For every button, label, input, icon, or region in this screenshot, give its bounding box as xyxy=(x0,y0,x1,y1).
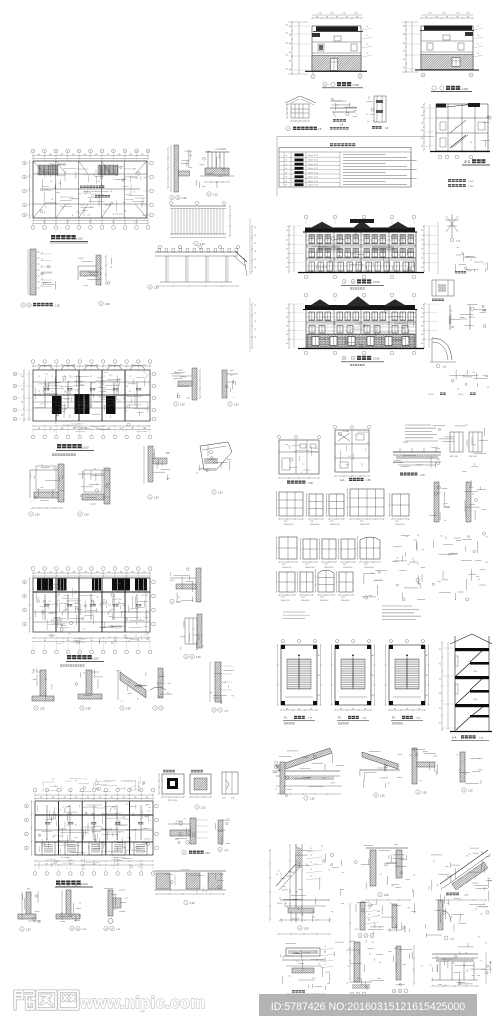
svg-text:1:20: 1:20 xyxy=(380,796,385,798)
parapet detail (right of 3F plan) 2 xyxy=(222,370,227,398)
svg-text:-: - xyxy=(348,357,349,360)
svg-text:15: 15 xyxy=(38,376,40,378)
svg-text:28: 28 xyxy=(254,227,256,229)
svg-text:1800x1500: 1800x1500 xyxy=(330,524,339,526)
svg-text:-: - xyxy=(437,87,438,91)
svg-text:15: 15 xyxy=(129,391,131,393)
bottom-left wall base detail 2 label xyxy=(70,926,74,930)
svg-text:1500x1500: 1500x1500 xyxy=(282,567,291,569)
wall detail 4-14 (right of roof plan) xyxy=(174,145,179,192)
svg-text:900x1500: 900x1500 xyxy=(320,600,328,602)
wall strip leader texts xyxy=(40,253,52,255)
mid small details pair xyxy=(360,902,365,930)
column footing detail a (square) xyxy=(162,774,184,794)
svg-text:25: 25 xyxy=(368,914,370,916)
svg-text:25mm 1:2.5: 25mm 1:2.5 xyxy=(308,185,318,187)
decor detail 7 label xyxy=(286,126,290,130)
detail tree symbol 1:20 xyxy=(451,214,453,238)
second floor plan interior xyxy=(46,619,48,630)
second floor plan left right bubbles xyxy=(23,580,27,584)
svg-text:20: 20 xyxy=(41,278,43,280)
decorative gable detail 7 xyxy=(285,96,300,103)
elevation 6-5 title xyxy=(432,86,436,90)
svg-text:1:100: 1:100 xyxy=(82,446,89,450)
balcony corner detail 5 (left-bottom) xyxy=(96,255,101,285)
svg-text:1:20: 1:20 xyxy=(55,305,60,308)
svg-text:28: 28 xyxy=(254,259,256,261)
bottom mid vertical strip detail xyxy=(354,942,360,982)
svg-text:12: 12 xyxy=(477,53,479,55)
svg-text:3: 3 xyxy=(56,151,57,153)
svg-text:A-A: A-A xyxy=(340,478,345,482)
right mid vertical detail xyxy=(438,900,443,930)
facade 11-1 bottom axis bubbles xyxy=(304,351,308,355)
facade 11-1 ground line xyxy=(298,348,424,350)
elevation 6-5 right leader notes xyxy=(473,28,483,30)
roof plan extra marks xyxy=(84,190,97,192)
svg-text:-: - xyxy=(348,281,349,284)
svg-text:28: 28 xyxy=(254,313,256,315)
svg-text:1:20: 1:20 xyxy=(190,903,195,905)
bottom right field leader texts a xyxy=(306,850,322,852)
long footing detail bottom xyxy=(154,870,226,872)
svg-text:28: 28 xyxy=(254,337,256,339)
svg-text:-: - xyxy=(328,83,329,87)
roof plan axis bubbles top xyxy=(31,149,35,153)
wall corner detail mid label xyxy=(182,850,186,854)
bathroom enlarged plan 1 xyxy=(279,440,319,474)
window schedule row 3 xyxy=(279,572,295,592)
materials table black sample cells xyxy=(295,154,304,157)
svg-text:1:100: 1:100 xyxy=(468,186,474,188)
section 1-1 axis bubbles xyxy=(438,155,442,159)
svg-text:1:20: 1:20 xyxy=(84,515,89,517)
svg-text:1.50: 1.50 xyxy=(456,13,460,15)
svg-text:12: 12 xyxy=(366,53,368,55)
vertical detail right edge of 1F details xyxy=(280,762,285,794)
svg-text:15: 15 xyxy=(103,391,105,393)
svg-text:1:30: 1:30 xyxy=(105,304,110,306)
facade 1-11 title xyxy=(342,280,346,284)
svg-text:15: 15 xyxy=(77,376,79,378)
column footing detail b (hatched square) xyxy=(190,774,211,794)
gable-chimney detail label xyxy=(298,926,302,930)
parapet posts label xyxy=(378,892,382,896)
svg-text:1:30: 1:30 xyxy=(154,288,159,290)
elevation 6-5 axis bubbles xyxy=(421,73,425,77)
facade 1-11 balcony rails xyxy=(318,246,340,248)
bottom mid second strip xyxy=(396,946,401,980)
svg-text:15: 15 xyxy=(90,376,92,378)
svg-text:1:100: 1:100 xyxy=(81,882,88,886)
svg-text:1: 1 xyxy=(360,936,361,938)
wall strip label xyxy=(21,303,25,307)
svg-text:1:100: 1:100 xyxy=(76,237,83,241)
svg-text:4: 4 xyxy=(67,151,68,153)
svg-text:28: 28 xyxy=(254,243,256,245)
bathroom plan 1 label xyxy=(287,481,290,484)
materials table xyxy=(279,148,411,188)
svg-text:8: 8 xyxy=(113,151,114,153)
elevation 6-5 ground line xyxy=(415,69,479,71)
right details stack c - fireplace xyxy=(432,280,454,296)
svg-text:11: 11 xyxy=(147,151,149,153)
facade 11-1 roof band xyxy=(305,305,415,310)
svg-text:1:100: 1:100 xyxy=(462,87,469,91)
svg-text:M1 1:30: M1 1:30 xyxy=(469,456,477,458)
svg-text:20: 20 xyxy=(41,265,43,267)
notes above stair plan 1 xyxy=(283,611,305,613)
gable-chimney tall detail bottom left of field xyxy=(295,844,297,922)
facade 11-1 upper windows xyxy=(309,312,315,320)
svg-text:1.50: 1.50 xyxy=(318,13,322,15)
svg-text:1:20: 1:20 xyxy=(304,929,309,931)
detail right of 2F plan 4 xyxy=(196,568,201,602)
roof plan inner annotation xyxy=(84,191,87,194)
window sill detail bottom xyxy=(286,948,320,956)
railing detail 5 label xyxy=(194,241,198,245)
balcony corner detail 5 label xyxy=(99,301,103,305)
eave detail row item C xyxy=(412,748,417,784)
facade 1-11 ground line xyxy=(298,272,424,274)
roof plan gutter hatch combs xyxy=(38,165,58,175)
svg-text:2: 2 xyxy=(394,991,395,993)
svg-text:5: 5 xyxy=(79,151,80,153)
svg-text:25mm 1:2.5: 25mm 1:2.5 xyxy=(308,172,318,174)
roof plan body outline xyxy=(33,161,147,218)
elevation 5-6 right leader notes xyxy=(362,28,372,30)
second floor plan bottom dims xyxy=(33,637,150,639)
svg-text:14: 14 xyxy=(177,198,179,200)
svg-text:1:20: 1:20 xyxy=(196,657,201,659)
svg-text:5: 5 xyxy=(313,77,314,79)
svg-text:6: 6 xyxy=(90,151,91,153)
right eave detail label xyxy=(446,893,449,896)
svg-text:15: 15 xyxy=(129,376,131,378)
detail right of 2F plan window jamb xyxy=(197,614,202,648)
roof plan ridge and hip lines xyxy=(33,173,147,175)
stair section flights xyxy=(456,663,470,676)
facade 1-11 windows floor2/3 xyxy=(309,235,315,244)
svg-text:1:20: 1:20 xyxy=(126,709,131,711)
decor mid detail xyxy=(330,100,342,102)
wall section detail right of row1 b xyxy=(466,482,471,522)
third floor plan top axis bubbles and dims xyxy=(31,360,35,364)
svg-text:1-1: 1-1 xyxy=(464,159,471,164)
svg-text:1800x1500: 1800x1500 xyxy=(360,524,369,526)
parapet detail (right of 3F plan) 1 xyxy=(192,368,197,400)
second floor plan heavy walls xyxy=(33,591,150,593)
facade 11-1 title xyxy=(342,356,346,360)
roof plan axis bubbles bottom xyxy=(31,226,35,230)
facade 11-1 right dimension column xyxy=(423,304,425,348)
roof plan outer dimension chains bottom xyxy=(33,220,148,222)
svg-text:A-A: A-A xyxy=(452,736,457,740)
facade 11-1 ground floor openings xyxy=(312,337,319,346)
window schedule row 2 xyxy=(279,537,297,559)
mid small details labels xyxy=(358,934,362,938)
corner wall detail B below 3F plan xyxy=(104,468,110,504)
svg-text:25mm 1:2.5: 25mm 1:2.5 xyxy=(308,181,318,183)
facade 11-1 gables xyxy=(309,300,331,307)
elevation 6-5 window in wall xyxy=(452,58,460,67)
third floor plan interior partitions xyxy=(44,382,46,408)
svg-text:1:50: 1:50 xyxy=(308,482,313,485)
second floor plan body xyxy=(33,578,150,632)
svg-text:14: 14 xyxy=(77,929,79,931)
wall detail 4-14 label xyxy=(170,195,174,199)
decor right detail label xyxy=(372,126,375,129)
svg-text:16-11: 16-11 xyxy=(458,394,464,396)
svg-text:1500x1500: 1500x1500 xyxy=(305,567,314,569)
elevation 6-5 building body xyxy=(421,26,473,70)
roof plan title xyxy=(51,235,55,239)
section 1-1 building outline xyxy=(436,104,488,151)
svg-text:12: 12 xyxy=(366,26,368,28)
stair plan 1F xyxy=(281,639,284,642)
svg-text:25: 25 xyxy=(324,964,326,966)
svg-text:28: 28 xyxy=(254,235,256,237)
far right edge details xyxy=(481,968,489,970)
bottom right field extra scatter 3 xyxy=(426,934,442,936)
svg-text:20: 20 xyxy=(41,285,43,287)
svg-text:1:20: 1:20 xyxy=(176,602,181,604)
frame line above table xyxy=(277,136,434,138)
facade 11-1 extra texture xyxy=(349,313,351,316)
facade 1-11 bottom axis bubbles xyxy=(304,275,308,279)
svg-text:15: 15 xyxy=(51,376,53,378)
first floor plan interior partitions xyxy=(46,805,48,840)
svg-text:1.50: 1.50 xyxy=(466,13,470,15)
svg-text:12: 12 xyxy=(366,35,368,37)
second floor plan top axis bubbles and dims xyxy=(33,572,150,574)
svg-text:12: 12 xyxy=(477,26,479,28)
svg-text:15: 15 xyxy=(103,376,105,378)
third floor plan title xyxy=(57,444,61,448)
section 1-1 roof slabs xyxy=(436,104,446,108)
svg-text:1.50: 1.50 xyxy=(428,13,432,15)
third floor plan bay windows top xyxy=(38,366,53,371)
svg-text:900x1500: 900x1500 xyxy=(281,600,289,602)
small window section pair xyxy=(450,432,463,452)
right details stack d xyxy=(482,305,484,307)
svg-text:25: 25 xyxy=(310,862,312,864)
svg-text:2: 2 xyxy=(366,936,367,938)
wall base detail row item 4 - corner xyxy=(158,668,163,698)
svg-text:10: 10 xyxy=(136,151,138,153)
svg-text:20: 20 xyxy=(41,259,43,261)
stair section body xyxy=(454,636,456,732)
svg-text:1: 1 xyxy=(33,151,34,153)
svg-text:25: 25 xyxy=(310,876,312,878)
elevation 6-5 hatched lower wall xyxy=(421,55,473,70)
right eave large detail xyxy=(440,850,488,884)
facade 11-1 top axis bubbles xyxy=(304,293,308,297)
facade 1-11 extra texture xyxy=(316,265,318,269)
svg-text:1:100: 1:100 xyxy=(373,357,380,361)
svg-text:4.500: 4.500 xyxy=(403,442,409,444)
bottom-left wall base detail 1 xyxy=(26,892,31,918)
svg-text:1.50: 1.50 xyxy=(354,13,358,15)
svg-text:1:30: 1:30 xyxy=(420,475,425,477)
elevation 5-6 hatched lower wall xyxy=(312,56,361,72)
svg-text:2: 2 xyxy=(44,151,45,153)
second floor plan black balcony blocks xyxy=(37,579,53,591)
wall section detail right of row1 a xyxy=(434,482,439,522)
second floor plan interior partitions xyxy=(44,594,46,620)
bottom-left wall base detail 2 xyxy=(66,890,71,918)
svg-text:25mm 1:2.5: 25mm 1:2.5 xyxy=(308,168,318,170)
first floor plan heavy walls xyxy=(35,814,153,816)
svg-text:1:20: 1:20 xyxy=(213,195,218,197)
cornice detail 5 (right) xyxy=(200,442,232,470)
svg-text:14: 14 xyxy=(111,929,113,931)
pergola detail 4 (long beam) xyxy=(158,245,161,248)
stair plan 3F xyxy=(389,639,392,642)
svg-text:1:20: 1:20 xyxy=(182,198,187,200)
svg-text:25: 25 xyxy=(324,958,326,960)
svg-text:15: 15 xyxy=(116,391,118,393)
svg-text:25mm 1:2.5: 25mm 1:2.5 xyxy=(308,160,318,162)
first floor plan top dims and bubbles xyxy=(33,788,37,792)
bottom right field extra scatter 1 xyxy=(301,906,303,913)
detail below-right of 3F plan 4 xyxy=(148,446,153,482)
first floor plan body xyxy=(35,801,153,855)
elevation 5-6 door xyxy=(331,59,338,71)
svg-text:1500x1500: 1500x1500 xyxy=(343,567,352,569)
svg-text:PJ-1 1:20: PJ-1 1:20 xyxy=(168,800,178,802)
svg-text:14: 14 xyxy=(28,305,30,307)
right details stack e - curved bracket xyxy=(432,338,452,360)
svg-text:15: 15 xyxy=(77,391,79,393)
third floor plan heavy walls xyxy=(33,394,150,396)
svg-text:11: 11 xyxy=(343,358,345,360)
second floor plan title xyxy=(67,655,71,659)
elevation 5-6 axis bubbles xyxy=(311,75,315,79)
section 1-1 stair flights xyxy=(450,135,466,148)
notes list top (right mid) xyxy=(402,424,404,426)
first floor plan bottom dims xyxy=(35,860,153,862)
svg-text:M2 1:30: M2 1:30 xyxy=(450,456,458,458)
C-C small detail xyxy=(222,772,238,794)
svg-text:1.50: 1.50 xyxy=(330,13,334,15)
svg-text:900x1500: 900x1500 xyxy=(341,600,349,602)
svg-text:1:20: 1:20 xyxy=(234,405,239,407)
svg-text:11-16: 11-16 xyxy=(428,394,434,396)
svg-text:2F5: 2F5 xyxy=(27,889,30,891)
facade 1-11 gables xyxy=(309,222,335,229)
svg-text:900x1500: 900x1500 xyxy=(301,600,309,602)
svg-text:1500x1500: 1500x1500 xyxy=(324,567,333,569)
svg-text:25: 25 xyxy=(310,848,312,850)
stair section dimension column xyxy=(441,642,443,730)
svg-text:1:25: 1:25 xyxy=(86,709,91,711)
svg-text:28: 28 xyxy=(254,267,256,269)
svg-text:12: 12 xyxy=(477,35,479,37)
second floor plan extra interior annotation xyxy=(122,611,127,613)
image id bar xyxy=(259,994,477,1016)
nipic watermark CJK logo (outlined) xyxy=(15,991,34,1009)
svg-text:25mm 1:2.5: 25mm 1:2.5 xyxy=(308,155,318,157)
svg-text:13: 13 xyxy=(105,929,107,931)
notes above stair plan 3 xyxy=(382,605,412,607)
window sill label xyxy=(292,990,295,993)
balcony slab detail (mid right) xyxy=(393,451,441,453)
roof plan extra interior annotation xyxy=(44,174,46,177)
eave detail 6 (right of roof plan) xyxy=(205,168,229,175)
elevation 5-6 title xyxy=(323,82,327,86)
corner wall detail A below 3F plan xyxy=(58,464,64,502)
svg-text:15: 15 xyxy=(64,391,66,393)
corner wall detail B label xyxy=(78,512,82,516)
svg-text:1.50: 1.50 xyxy=(342,13,346,15)
external wall section detail 4-14 tall strip xyxy=(30,249,36,295)
elevation 5-6 building body xyxy=(312,26,361,71)
long footing detail label xyxy=(184,900,188,904)
small jamb detail right xyxy=(218,820,223,844)
parapet posts detail xyxy=(370,850,376,886)
bathroom enlarged plan 2 xyxy=(335,430,369,472)
decor right detail xyxy=(374,96,386,122)
eave detail 6 label xyxy=(207,192,211,196)
svg-text:1:25: 1:25 xyxy=(26,930,31,932)
bottom right field extra scatter 2 xyxy=(413,891,415,898)
stair section window marks xyxy=(455,656,458,666)
svg-text:1.50: 1.50 xyxy=(442,13,446,15)
stair plan 2F xyxy=(335,639,338,642)
section 1-1 dimension column xyxy=(423,104,425,150)
facade 1-11 right dimension column xyxy=(423,226,425,272)
facade 11-1 left dimension column xyxy=(288,304,290,348)
corner wall detail A label xyxy=(29,512,33,516)
svg-text:12: 12 xyxy=(477,44,479,46)
wall base detail row item 5 tall xyxy=(215,662,221,702)
svg-text:20: 20 xyxy=(41,252,43,254)
svg-text:25: 25 xyxy=(368,908,370,910)
facade 1-11 ground floor windows xyxy=(309,262,315,271)
section notes two lines xyxy=(448,179,451,182)
svg-text:5: 5 xyxy=(471,75,472,77)
svg-text:1:20: 1:20 xyxy=(468,791,473,793)
svg-text:15: 15 xyxy=(90,391,92,393)
first floor plan extra interior annotation xyxy=(46,819,52,821)
svg-text:1:20: 1:20 xyxy=(201,808,206,810)
svg-text:1:20: 1:20 xyxy=(35,515,40,517)
materials table notes text block xyxy=(343,154,386,156)
svg-text:1:100: 1:100 xyxy=(92,657,99,661)
first floor plan interior xyxy=(58,835,63,837)
svg-text:28: 28 xyxy=(254,329,256,331)
svg-text:5: 5 xyxy=(372,936,373,938)
svg-text:11: 11 xyxy=(352,282,354,284)
svg-text:1:50: 1:50 xyxy=(366,479,371,482)
third floor plan left axis bubbles xyxy=(13,372,17,376)
svg-text:28: 28 xyxy=(254,321,256,323)
svg-text:5: 5 xyxy=(400,991,401,993)
decor mid detail labels xyxy=(333,119,336,122)
svg-text:1200: 1200 xyxy=(473,699,477,701)
svg-text:1800x1500: 1800x1500 xyxy=(395,524,404,526)
bottom right slab detail xyxy=(432,953,478,955)
svg-text:1200: 1200 xyxy=(473,671,477,673)
section 1-1 ground line xyxy=(430,151,490,153)
svg-text:1800x1500: 1800x1500 xyxy=(284,524,293,526)
facade 1-11 left dimension column xyxy=(288,226,290,272)
pergola detail 4 label xyxy=(148,285,152,289)
svg-text:www.nipic.com: www.nipic.com xyxy=(79,993,206,1012)
mid right extra scatter between window rows xyxy=(466,439,468,446)
stair section floor slabs xyxy=(455,648,489,651)
